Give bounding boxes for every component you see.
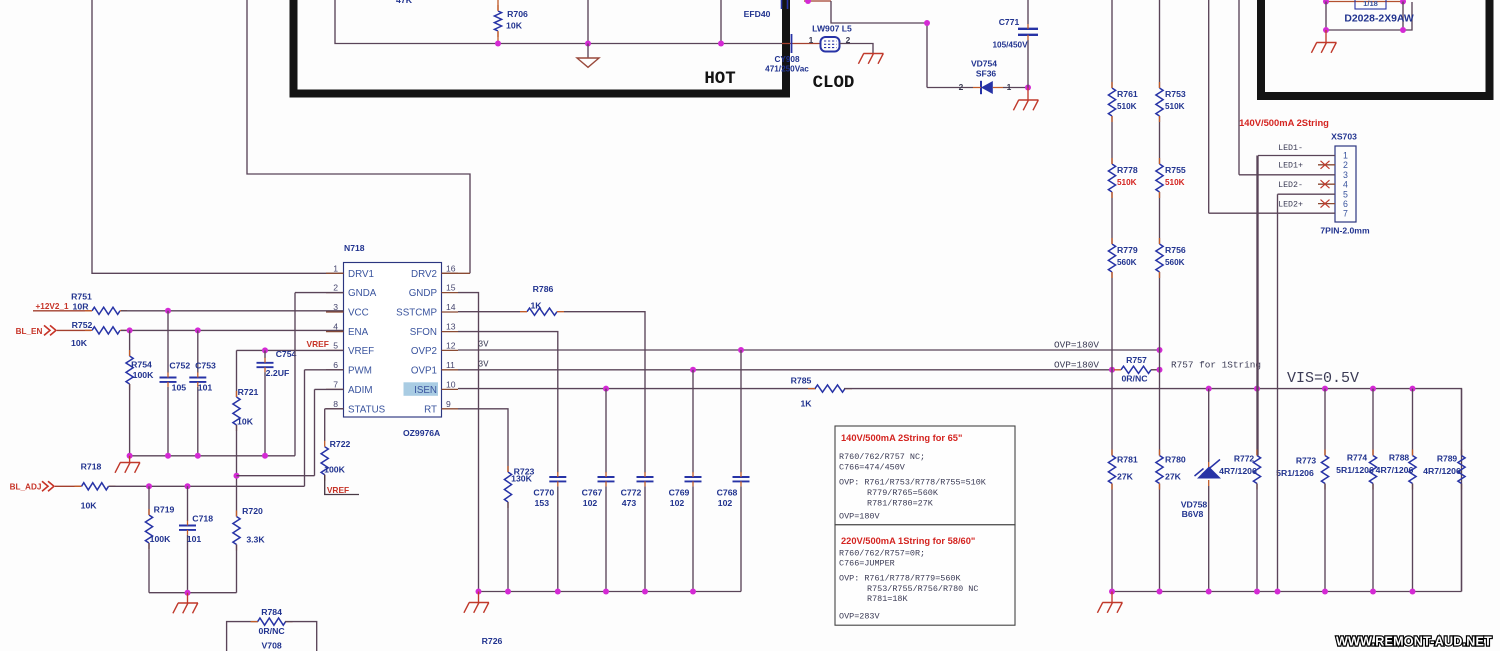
svg-text:14: 14 <box>446 302 456 312</box>
svg-text:10K: 10K <box>71 338 88 348</box>
svg-text:5R1/1206: 5R1/1206 <box>1336 465 1374 475</box>
svg-text:SFON: SFON <box>410 327 437 338</box>
svg-text:4R7/1206: 4R7/1206 <box>1423 466 1461 476</box>
svg-text:102: 102 <box>583 498 598 508</box>
svg-text:ENA: ENA <box>348 327 369 338</box>
svg-text:C766=474/450V: C766=474/450V <box>839 463 906 473</box>
svg-text:510K: 510K <box>1117 102 1137 111</box>
svg-text:D2028-2X9AW: D2028-2X9AW <box>1344 14 1413 25</box>
svg-text:R757: R757 <box>1126 355 1147 365</box>
svg-text:LED1-: LED1- <box>1278 144 1303 153</box>
svg-text:3V: 3V <box>478 359 489 369</box>
svg-text:GNDP: GNDP <box>409 288 438 299</box>
svg-text:140V/500mA 2String for 65": 140V/500mA 2String for 65" <box>841 433 962 443</box>
svg-text:0R/NC: 0R/NC <box>1121 374 1148 384</box>
svg-text:N718: N718 <box>344 243 365 253</box>
svg-text:10R: 10R <box>73 301 90 311</box>
svg-text:CY908: CY908 <box>774 55 799 64</box>
svg-text:10K: 10K <box>81 501 98 511</box>
svg-text:R774: R774 <box>1347 453 1368 463</box>
svg-text:R786: R786 <box>533 284 554 294</box>
svg-text:C772: C772 <box>621 488 642 498</box>
svg-text:100K: 100K <box>133 370 154 380</box>
svg-text:10: 10 <box>446 379 456 389</box>
svg-text:9: 9 <box>446 399 451 409</box>
svg-text:PWM: PWM <box>348 365 372 376</box>
svg-text:OVP=283V: OVP=283V <box>839 612 880 622</box>
svg-text:OVP2: OVP2 <box>411 346 437 357</box>
svg-text:VD754: VD754 <box>971 59 997 69</box>
svg-text:R753: R753 <box>1165 89 1186 99</box>
svg-text:VREF: VREF <box>348 346 374 357</box>
svg-text:R781=18K: R781=18K <box>867 594 908 604</box>
svg-text:R779: R779 <box>1117 245 1138 255</box>
svg-text:7: 7 <box>333 379 338 389</box>
svg-text:R781: R781 <box>1117 455 1138 465</box>
svg-text:SF36: SF36 <box>976 68 997 78</box>
svg-text:OVP: R761/R778/R779=560K: OVP: R761/R778/R779=560K <box>839 573 961 583</box>
svg-text:7PIN-2.0mm: 7PIN-2.0mm <box>1320 226 1370 236</box>
svg-text:C718: C718 <box>192 514 213 524</box>
svg-text:1K: 1K <box>800 399 812 409</box>
svg-text:11: 11 <box>446 360 455 370</box>
svg-text:10K: 10K <box>237 416 254 426</box>
svg-text:R755: R755 <box>1165 165 1186 175</box>
svg-text:3.3K: 3.3K <box>246 535 265 545</box>
svg-text:130K: 130K <box>511 474 532 484</box>
svg-text:1: 1 <box>809 35 814 45</box>
svg-text:DRV1: DRV1 <box>348 269 374 280</box>
svg-text:0R/NC: 0R/NC <box>259 626 286 636</box>
svg-text:VREF: VREF <box>307 339 329 349</box>
svg-text:DRV2: DRV2 <box>411 269 437 280</box>
svg-text:OVP=180V: OVP=180V <box>839 511 880 521</box>
svg-text:5: 5 <box>333 340 338 350</box>
svg-text:C766=JUMPER: C766=JUMPER <box>839 559 895 569</box>
svg-text:BL_ADJ: BL_ADJ <box>10 483 42 492</box>
svg-text:R751: R751 <box>71 292 92 302</box>
svg-text:VD758: VD758 <box>1181 500 1208 510</box>
svg-text:R788: R788 <box>1389 453 1410 463</box>
svg-text:BL_EN: BL_EN <box>16 327 43 336</box>
svg-text:R753/R755/R756/R780 NC: R753/R755/R756/R780 NC <box>867 584 978 594</box>
svg-text:510K: 510K <box>1117 178 1137 187</box>
svg-text:153: 153 <box>535 498 550 508</box>
svg-text:C770: C770 <box>533 488 554 498</box>
svg-text:R779/R765=560K: R779/R765=560K <box>867 488 939 498</box>
svg-text:R761: R761 <box>1117 89 1138 99</box>
svg-text:STATUS: STATUS <box>348 404 386 415</box>
svg-text:ISEN: ISEN <box>414 385 437 396</box>
svg-text:ADIM: ADIM <box>348 385 373 396</box>
svg-text:13: 13 <box>446 322 456 332</box>
svg-text:C767: C767 <box>582 488 603 498</box>
svg-text:SSTCMP: SSTCMP <box>396 308 437 319</box>
svg-text:XS703: XS703 <box>1331 132 1357 142</box>
svg-text:R760/762/R757=0R;: R760/762/R757=0R; <box>839 548 925 558</box>
svg-text:OVP=180V: OVP=180V <box>1054 359 1099 370</box>
svg-text:27K: 27K <box>1117 472 1134 482</box>
svg-text:R718: R718 <box>81 461 102 471</box>
svg-text:1K: 1K <box>530 301 542 311</box>
svg-text:2: 2 <box>959 82 964 92</box>
svg-text:100K: 100K <box>324 465 345 475</box>
svg-text:27K: 27K <box>1165 472 1182 482</box>
svg-text:16: 16 <box>446 263 456 273</box>
svg-text:CLOD: CLOD <box>813 74 855 93</box>
svg-text:2: 2 <box>333 283 338 293</box>
svg-text:10K: 10K <box>506 21 523 31</box>
svg-text:101: 101 <box>187 534 202 544</box>
svg-text:560K: 560K <box>1165 258 1185 267</box>
svg-text:V708: V708 <box>261 641 281 651</box>
svg-text:510K: 510K <box>1165 102 1185 111</box>
svg-text:R706: R706 <box>507 9 528 19</box>
svg-text:OVP1: OVP1 <box>411 365 437 376</box>
svg-text:15: 15 <box>446 283 456 293</box>
svg-text:R721: R721 <box>238 387 259 397</box>
svg-text:R789: R789 <box>1437 454 1458 464</box>
svg-text:WWW.REMONT-AUD.NET: WWW.REMONT-AUD.NET <box>1336 635 1492 649</box>
svg-text:VCC: VCC <box>348 308 369 319</box>
svg-text:B6V8: B6V8 <box>1182 509 1204 519</box>
svg-text:R726: R726 <box>482 636 503 646</box>
svg-text:R757 for 1String: R757 for 1String <box>1171 360 1261 371</box>
svg-text:R756: R756 <box>1165 245 1186 255</box>
svg-text:OVP: R761/R753/R778/R755=510K: OVP: R761/R753/R778/R755=510K <box>839 478 987 488</box>
svg-text:VREF: VREF <box>327 485 349 495</box>
svg-text:R754: R754 <box>131 360 152 370</box>
svg-text:2: 2 <box>1343 160 1348 170</box>
svg-text:LED2-: LED2- <box>1278 181 1303 190</box>
svg-text:R780: R780 <box>1165 455 1186 465</box>
svg-text:100K: 100K <box>150 534 171 544</box>
svg-text:1/18: 1/18 <box>1363 0 1378 8</box>
svg-text:1: 1 <box>1007 82 1012 92</box>
svg-text:R781/R780=27K: R781/R780=27K <box>867 498 934 508</box>
svg-text:C768: C768 <box>717 488 738 498</box>
svg-text:105/450V: 105/450V <box>992 41 1028 50</box>
svg-text:105: 105 <box>172 383 187 393</box>
svg-text:47K: 47K <box>396 0 413 5</box>
svg-text:102: 102 <box>670 498 685 508</box>
svg-text:C771: C771 <box>999 17 1020 27</box>
svg-text:102: 102 <box>718 498 733 508</box>
svg-text:C769: C769 <box>669 488 690 498</box>
svg-text:4R7/1206: 4R7/1206 <box>1219 466 1257 476</box>
svg-text:R722: R722 <box>330 439 351 449</box>
svg-text:R720: R720 <box>242 506 263 516</box>
svg-text:EFD40: EFD40 <box>744 9 771 19</box>
svg-text:C752: C752 <box>169 360 190 370</box>
svg-text:R760/762/R757 NC;: R760/762/R757 NC; <box>839 452 925 462</box>
svg-text:LED1+: LED1+ <box>1278 162 1303 171</box>
svg-text:220V/500mA 1String for 58/60": 220V/500mA 1String for 58/60" <box>841 536 975 546</box>
svg-text:4: 4 <box>1343 179 1348 189</box>
svg-text:OVP=180V: OVP=180V <box>1054 339 1099 350</box>
svg-text:HOT: HOT <box>704 70 735 89</box>
svg-text:R778: R778 <box>1117 165 1138 175</box>
svg-text:560K: 560K <box>1117 258 1137 267</box>
svg-text:3V: 3V <box>478 340 489 350</box>
svg-text:LW907 L5: LW907 L5 <box>812 24 852 34</box>
svg-text:R773: R773 <box>1296 456 1317 466</box>
svg-text:6: 6 <box>333 360 338 370</box>
svg-text:R785: R785 <box>791 376 812 386</box>
svg-text:140V/500mA 2String: 140V/500mA 2String <box>1239 117 1329 128</box>
svg-text:+12V2_1: +12V2_1 <box>35 302 68 311</box>
svg-text:1: 1 <box>333 263 338 273</box>
svg-text:R784: R784 <box>261 607 282 617</box>
svg-text:471/250Vac: 471/250Vac <box>765 65 809 74</box>
svg-text:C753: C753 <box>195 360 216 370</box>
svg-text:101: 101 <box>198 383 213 393</box>
svg-text:6: 6 <box>1343 199 1348 209</box>
svg-text:OZ9976A: OZ9976A <box>403 428 440 438</box>
svg-text:4R7/1206: 4R7/1206 <box>1376 465 1414 475</box>
svg-text:12: 12 <box>446 340 456 350</box>
svg-text:RT: RT <box>424 404 437 415</box>
svg-text:C754: C754 <box>276 349 297 359</box>
svg-text:510K: 510K <box>1165 178 1185 187</box>
svg-text:7: 7 <box>1343 208 1348 218</box>
svg-text:R719: R719 <box>154 505 175 515</box>
svg-text:GNDA: GNDA <box>348 288 377 299</box>
svg-text:R772: R772 <box>1234 454 1255 464</box>
svg-text:8: 8 <box>333 399 338 409</box>
svg-text:LED2+: LED2+ <box>1278 201 1303 210</box>
svg-text:2.2UF: 2.2UF <box>266 368 290 378</box>
svg-text:R752: R752 <box>72 320 93 330</box>
svg-text:473: 473 <box>622 498 637 508</box>
svg-text:5R1/1206: 5R1/1206 <box>1276 468 1314 478</box>
svg-text:VIS=0.5V: VIS=0.5V <box>1287 370 1359 387</box>
